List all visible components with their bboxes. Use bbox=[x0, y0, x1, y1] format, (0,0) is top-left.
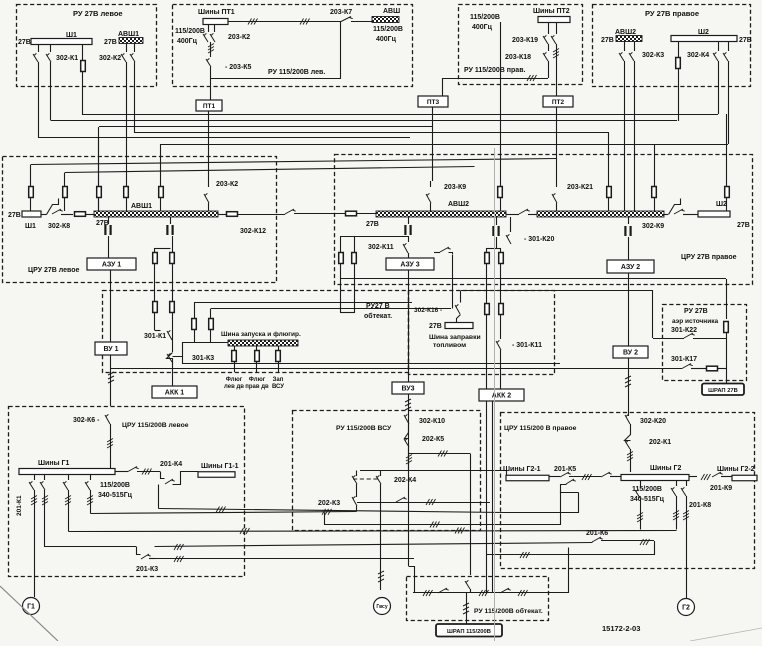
feed fuses above АВШ1 bbox=[29, 187, 34, 198]
switch 301-К17 on y=368 wire bbox=[682, 364, 693, 369]
svg-text:ЦРУ 27В правое: ЦРУ 27В правое bbox=[681, 254, 737, 261]
wire y=165 from fuse 31 bbox=[30, 165, 32, 186]
svg-text:ПТ1: ПТ1 bbox=[203, 103, 216, 110]
svg-text:Шины Г2: Шины Г2 bbox=[650, 465, 681, 472]
svg-text:27В: 27В bbox=[8, 212, 21, 219]
svg-text:203-К19: 203-К19 bbox=[512, 37, 538, 44]
switch 203-К7 bbox=[341, 17, 353, 22]
svg-text:15172-2-03: 15172-2-03 bbox=[602, 624, 640, 633]
svg-text:ВУ 1: ВУ 1 bbox=[104, 346, 119, 353]
wire row into 202-К3 bbox=[91, 512, 357, 514]
wire L2 y=120 bbox=[50, 87, 52, 121]
svg-text:- 203-К5: - 203-К5 bbox=[225, 64, 252, 71]
svg-text:АВШ1: АВШ1 bbox=[131, 203, 152, 210]
block: fairing 27V section (dashed enclosure) bbox=[103, 291, 409, 373]
Г2 feeder bbox=[686, 496, 688, 598]
device ВУ3 bbox=[392, 382, 424, 394]
svg-text:АЗУ 3: АЗУ 3 bbox=[400, 262, 419, 269]
block: ЦРУ 27В правое (dashed enclosure) bbox=[335, 155, 753, 285]
circle Гвсу generator bbox=[374, 598, 391, 615]
circle Г1 generator bbox=[23, 598, 40, 615]
contactor 202-К4 pair bbox=[352, 475, 357, 484]
svg-text:- 301-К20: - 301-К20 bbox=[524, 236, 554, 243]
svg-text:302-К1: 302-К1 bbox=[56, 55, 78, 62]
contactor 301-К3 bbox=[155, 330, 161, 332]
contactor 201-К5 bbox=[549, 476, 560, 478]
circle Г2 generator bbox=[678, 599, 695, 616]
svg-text:АЗУ 1: АЗУ 1 bbox=[102, 262, 121, 269]
svg-text:27В: 27В bbox=[601, 37, 614, 44]
ШРАП feeder bbox=[466, 593, 468, 602]
block: РУ 115/200В обтекат. (dashed enclosure) bbox=[407, 577, 549, 621]
bus Ш1 (middle) bbox=[22, 211, 41, 217]
wire L3 y=127 bbox=[99, 126, 433, 128]
svg-text:Ш2: Ш2 bbox=[698, 29, 709, 36]
wire L7 y=144 right stub bbox=[654, 144, 728, 146]
contactor 301-К1 bbox=[167, 330, 172, 340]
svg-text:302-К6 -: 302-К6 - bbox=[73, 417, 100, 424]
svg-text:ВУ3: ВУ3 bbox=[401, 386, 414, 393]
svg-text:201-К3: 201-К3 bbox=[136, 566, 158, 573]
svg-text:27В: 27В bbox=[18, 39, 31, 46]
svg-text:РУ 115/200В обтекат.: РУ 115/200В обтекат. bbox=[474, 607, 543, 615]
contactor 201-К4 bbox=[115, 471, 128, 473]
switch 301-К22 bbox=[653, 338, 684, 340]
svg-text:ЦРУ 27В левое: ЦРУ 27В левое bbox=[28, 267, 80, 274]
long run y=555 bbox=[487, 554, 654, 556]
switch 302-К20 bbox=[625, 414, 630, 424]
svg-text:топливом: топливом bbox=[433, 342, 466, 349]
fuse on left link into АВШ2 bbox=[346, 211, 357, 216]
fuse feeds from staircase wires bbox=[194, 303, 196, 318]
svg-text:203-К21: 203-К21 bbox=[567, 184, 593, 191]
svg-text:201-К8: 201-К8 bbox=[689, 502, 711, 509]
device ВУ 1 bbox=[95, 342, 127, 355]
contactor 302-К2 bbox=[126, 44, 128, 53]
svg-text:РУ 27В: РУ 27В bbox=[684, 308, 708, 315]
bus АВШ2 segment 2 (hatched) bbox=[537, 211, 664, 217]
svg-text:Шины Г1-1: Шины Г1-1 bbox=[201, 463, 239, 470]
contactor 202-К1 bbox=[625, 435, 631, 441]
svg-text:Шины ПТ2: Шины ПТ2 bbox=[533, 8, 570, 15]
svg-text:обтекат.: обтекат. bbox=[364, 312, 392, 320]
svg-text:301-К3: 301-К3 bbox=[192, 355, 214, 362]
block: РУ 115/200В ВСУ (dashed enclosure) bbox=[293, 411, 481, 531]
block: РУ 115/200В лев. (dashed enclosure) bbox=[173, 5, 413, 87]
wire АКК2 down feed bbox=[492, 401, 494, 593]
svg-text:302-К8: 302-К8 bbox=[48, 223, 70, 230]
svg-text:202-К1: 202-К1 bbox=[649, 439, 671, 446]
svg-text:203-К7: 203-К7 bbox=[330, 9, 352, 16]
fuse in aer box bbox=[724, 322, 729, 333]
switch 202-К3 on left leg bbox=[352, 496, 357, 506]
bus Ш2 (middle) bbox=[698, 211, 730, 217]
switch 203-К9 bbox=[430, 181, 432, 187]
block: РУ27 В обтекат. (dashed enclosure) bbox=[409, 291, 555, 375]
svg-text:301-К17: 301-К17 bbox=[671, 356, 697, 363]
svg-text:301-К1: 301-К1 bbox=[144, 333, 166, 340]
switch 201-К6 bbox=[592, 537, 603, 542]
svg-text:РУ 115/200В прав.: РУ 115/200В прав. bbox=[464, 67, 525, 74]
svg-text:302-К16 -: 302-К16 - bbox=[414, 307, 442, 314]
svg-text:203-К2: 203-К2 bbox=[228, 34, 250, 41]
device АЗУ 3 bbox=[386, 258, 434, 270]
block: РУ 27В аэр источника (dashed) bbox=[663, 305, 747, 381]
svg-text:Зап: Зап bbox=[273, 377, 284, 383]
svg-text:400Гц: 400Гц bbox=[376, 36, 397, 43]
contactor 302-К1 bbox=[38, 45, 40, 53]
svg-text:лев дв: лев дв bbox=[224, 384, 244, 390]
fuse before ШРАП 27В bbox=[707, 366, 718, 371]
contactor 202-К5 bbox=[405, 433, 409, 439]
switch 203-К2 (middle band) bbox=[208, 181, 210, 187]
svg-text:202-К3: 202-К3 bbox=[318, 500, 340, 507]
fuse on Ш2 drop bbox=[678, 42, 680, 59]
long run y=547 with 201-К6 bbox=[155, 543, 593, 547]
device АКК 1 bbox=[152, 386, 197, 398]
fuse feeds АВШ2 seg2 bbox=[607, 187, 612, 198]
link switch between АВШ2 segments bbox=[506, 214, 519, 216]
bus Шины Г2-2 bbox=[732, 475, 757, 481]
svg-text:РУ 27В левое: РУ 27В левое bbox=[73, 9, 123, 18]
box ПТ3 bbox=[418, 96, 448, 107]
wire: 203-К7 return to ПТ1 drop bbox=[340, 22, 342, 79]
bus АВШ (115/200В 400Гц) bbox=[372, 17, 399, 23]
svg-text:Шина заправки: Шина заправки bbox=[429, 334, 481, 341]
contactor 201-К8 bbox=[676, 481, 678, 486]
box ШРАП 27В bbox=[702, 384, 744, 396]
svg-text:302-К11: 302-К11 bbox=[368, 244, 394, 251]
fairing AC wire bbox=[413, 592, 569, 594]
svg-text:302-К10: 302-К10 bbox=[419, 418, 445, 425]
block: ЦРУ 115/200 В правое (dashed enclosure) bbox=[501, 413, 755, 569]
bus АВШ2 segment 1 (hatched) bbox=[376, 211, 506, 217]
svg-text:400Гц: 400Гц bbox=[472, 24, 493, 31]
block: ЦРУ 27В левое (dashed enclosure) bbox=[3, 157, 277, 283]
svg-text:203-К18: 203-К18 bbox=[505, 54, 531, 61]
fuse on Ш1 right drop bbox=[82, 45, 84, 62]
drop from box I bbox=[465, 580, 470, 589]
svg-text:Шина запуска и флюгир.: Шина запуска и флюгир. bbox=[221, 331, 301, 338]
switch 302-К10 bbox=[404, 414, 409, 424]
device ВУ 2 bbox=[613, 346, 648, 358]
bus Шины ПТ2 bbox=[538, 17, 570, 23]
switch 201-К3 on lower wires bbox=[45, 546, 136, 548]
wire ПТ2 drop with marks bbox=[556, 44, 558, 96]
block: РУ 27В левое (dashed enclosure) bbox=[17, 5, 157, 87]
wires to 27В fairing bus (341/354 drop) bbox=[341, 236, 408, 238]
svg-text:115/200В: 115/200В bbox=[470, 14, 500, 21]
svg-text:302-К9: 302-К9 bbox=[642, 223, 664, 230]
contactor 203-К5 bbox=[210, 42, 212, 57]
svg-text:Флюг: Флюг bbox=[226, 377, 243, 383]
svg-text:ЦРУ 115/200В левое: ЦРУ 115/200В левое bbox=[122, 422, 189, 429]
svg-text:ЦРУ 115/200 В правое: ЦРУ 115/200 В правое bbox=[504, 425, 577, 432]
fuse feed АВШ2 seg1 bbox=[498, 187, 503, 198]
svg-text:203-К9: 203-К9 bbox=[444, 184, 466, 191]
svg-text:РУ 115/200В ВСУ: РУ 115/200В ВСУ bbox=[336, 425, 392, 432]
switch 201-К9 to Г2-2 bbox=[689, 476, 697, 478]
wire Г1 feeder bbox=[34, 490, 36, 597]
fuse pair below АВШ2 seg1 right bbox=[486, 248, 488, 252]
svg-text:115/200В: 115/200В bbox=[100, 482, 130, 489]
svg-text:302-К4: 302-К4 bbox=[687, 52, 709, 59]
block: РУ 27В правое (dashed enclosure) bbox=[593, 5, 751, 87]
svg-text:ШРАП 27В: ШРАП 27В bbox=[708, 388, 738, 394]
bus Ш1 (top left) bbox=[31, 39, 92, 45]
svg-text:АВШ: АВШ bbox=[383, 8, 400, 15]
svg-text:201-К6: 201-К6 bbox=[586, 530, 608, 537]
wire y=173 from fuse 65 bbox=[64, 173, 66, 186]
wire 202-К4 left leg down bbox=[356, 484, 358, 497]
wire 115/200В 400Гц vertical bbox=[500, 22, 502, 186]
svg-text:27В: 27В bbox=[739, 37, 752, 44]
contactor 203-К19 bbox=[548, 23, 550, 35]
bus Шины ПТ1 bbox=[203, 19, 228, 25]
svg-text:РУ 27В правое: РУ 27В правое bbox=[645, 9, 699, 18]
svg-text:202-К4: 202-К4 bbox=[394, 477, 416, 484]
bus АВШ1 (middle, hatched) bbox=[94, 211, 218, 217]
svg-text:201-К9: 201-К9 bbox=[710, 485, 732, 492]
fuse pair 302-К16 feeds bbox=[485, 304, 490, 315]
wire 201-К4 loop bbox=[161, 472, 165, 479]
svg-text:аэр источника: аэр источника bbox=[672, 318, 718, 325]
wire L4 y=133 bbox=[134, 87, 136, 133]
device АЗУ 2 bbox=[607, 260, 654, 273]
svg-text:Ш1: Ш1 bbox=[25, 223, 36, 230]
svg-text:АКК 1: АКК 1 bbox=[165, 390, 185, 397]
svg-text:Флюг: Флюг bbox=[249, 377, 266, 383]
svg-text:Шины ПТ1: Шины ПТ1 bbox=[198, 9, 235, 16]
svg-text:202-К5: 202-К5 bbox=[422, 436, 444, 443]
plug to АЗУ 1 bbox=[108, 217, 110, 224]
svg-text:400Гц: 400Гц bbox=[177, 38, 198, 45]
long wire y=363 bbox=[182, 363, 560, 365]
device АКК 2 bbox=[479, 389, 524, 401]
svg-text:27В: 27В bbox=[366, 221, 379, 228]
svg-text:115/200В: 115/200В bbox=[175, 28, 205, 35]
vertical x=569 from upper runs bbox=[568, 548, 570, 594]
bus АВШ2 (top) bbox=[616, 36, 642, 42]
plug and 301-К20 drop at segment junction bbox=[496, 217, 498, 225]
svg-text:ПТ2: ПТ2 bbox=[552, 99, 565, 106]
vertical x=487 long drop bbox=[486, 592, 488, 593]
svg-text:- 301-К11: - 301-К11 bbox=[512, 342, 542, 349]
svg-text:РУ 115/200В лев.: РУ 115/200В лев. bbox=[268, 69, 325, 76]
switch 302-К12 and link wire to АВШ2 bbox=[218, 214, 226, 216]
svg-text:ВУ 2: ВУ 2 bbox=[623, 350, 638, 357]
long run y=559 into fairing box bbox=[155, 558, 414, 560]
svg-text:302-К20: 302-К20 bbox=[640, 418, 666, 425]
wire right leg down / Гвсу feeder bbox=[380, 484, 382, 590]
wire 301-К3 to start bus bbox=[173, 343, 229, 357]
svg-text:302-К3: 302-К3 bbox=[642, 52, 664, 59]
svg-text:Гвсу: Гвсу bbox=[376, 604, 387, 610]
svg-text:201-К5: 201-К5 bbox=[554, 466, 576, 473]
svg-text:27В: 27В bbox=[104, 39, 117, 46]
contactor 203-К18 bbox=[548, 44, 550, 51]
switch from АЗУ 3 right bbox=[434, 252, 440, 254]
svg-text:Шины Г2-1: Шины Г2-1 bbox=[503, 466, 541, 473]
bus Шины Г1-1 bbox=[198, 472, 235, 478]
wire 302-К2 left leg down to fuse bbox=[126, 87, 128, 186]
svg-text:прав дв: прав дв bbox=[245, 384, 269, 390]
bus Шины Г2 bbox=[621, 475, 689, 481]
switch 301-К11 bbox=[496, 340, 501, 350]
svg-text:27В: 27В bbox=[429, 323, 442, 330]
svg-text:Шины Г2-2: Шины Г2-2 bbox=[717, 466, 755, 473]
plug and fuse pair below АВШ1 bbox=[170, 217, 172, 224]
bus Шины Г2-1 bbox=[506, 475, 549, 481]
wire: РУ прав internal horizontal bbox=[442, 78, 548, 80]
svg-text:201-К1: 201-К1 bbox=[16, 495, 23, 516]
svg-text:302-К12: 302-К12 bbox=[240, 228, 266, 235]
wire 202-К5 right then down bbox=[408, 447, 410, 471]
device АЗУ 1 bbox=[87, 258, 136, 270]
switch 203-К21 bbox=[556, 181, 558, 187]
svg-text:АВШ2: АВШ2 bbox=[615, 29, 636, 36]
svg-text:ШРАП 115/200В: ШРАП 115/200В bbox=[447, 629, 491, 635]
box ПТ1 bbox=[196, 100, 222, 111]
svg-text:Г1: Г1 bbox=[27, 604, 35, 611]
svg-text:27В: 27В bbox=[96, 220, 109, 227]
box ПТ2 bbox=[543, 96, 573, 107]
svg-text:301-К22: 301-К22 bbox=[671, 327, 697, 334]
start bus output fuses bbox=[234, 346, 236, 351]
svg-text:340-515Гц: 340-515Гц bbox=[630, 496, 665, 503]
svg-text:ВСУ: ВСУ bbox=[272, 384, 284, 390]
long wire y=368 with 301-К17 at right bbox=[111, 368, 682, 370]
fuse on Ш1-АВШ1 link bbox=[75, 212, 86, 217]
svg-text:Ш2: Ш2 bbox=[716, 201, 727, 208]
block: ЦРУ 115/200В левое (dashed enclosure) bbox=[9, 407, 245, 577]
contactor 302-К8 bbox=[41, 214, 47, 216]
scan artifact vertical fold bbox=[494, 148, 496, 641]
plug to АЗУ 2 bbox=[628, 217, 630, 224]
scan artifact diagonal bbox=[0, 586, 58, 641]
svg-text:Шины Г1: Шины Г1 bbox=[38, 460, 69, 467]
contactor 302-К4 bbox=[718, 42, 720, 52]
svg-text:302-К2: 302-К2 bbox=[99, 55, 121, 62]
tap 676 down bbox=[676, 496, 678, 530]
svg-text:ПТ3: ПТ3 bbox=[427, 99, 440, 106]
svg-text:Ш1: Ш1 bbox=[66, 32, 77, 39]
long run y=524 branch bbox=[325, 491, 561, 525]
wire y=279 to aer source bbox=[340, 278, 726, 280]
fuse pair into 301-К1 bbox=[153, 302, 158, 313]
bus Шины Г1 bbox=[19, 469, 115, 475]
svg-text:АВШ2: АВШ2 bbox=[448, 201, 469, 208]
svg-text:203-К2: 203-К2 bbox=[216, 181, 238, 188]
svg-text:АВШ1: АВШ1 bbox=[118, 31, 139, 38]
contactor 203-К2 (top) bbox=[208, 25, 210, 33]
svg-text:Г2: Г2 bbox=[682, 605, 690, 612]
wire row y=502 from 202-К4 leg bbox=[357, 502, 490, 504]
long run y=531 bbox=[69, 531, 677, 532]
302-К11 switch to АЗУ 3 bbox=[408, 217, 410, 224]
box ШРАП 115/200В bbox=[436, 624, 502, 637]
wire L6 y=144 bbox=[161, 144, 654, 146]
wire from 302-К4 area to АВШ2 fuse bbox=[726, 114, 728, 186]
block: РУ 115/200В прав. (dashed enclosure) bbox=[459, 5, 583, 85]
svg-text:115/200В: 115/200В bbox=[373, 26, 403, 33]
svg-text:340-515Гц: 340-515Гц bbox=[98, 492, 133, 499]
svg-text:АЗУ 2: АЗУ 2 bbox=[621, 264, 640, 271]
wire: ПТ1 bus to 203-К7 bbox=[228, 21, 341, 23]
contactor 302-К9 bbox=[664, 214, 668, 216]
wire L5 y=137 bbox=[38, 87, 40, 138]
wire L1 y=114 bbox=[83, 114, 718, 116]
bus АВШ1 (top) bbox=[119, 38, 143, 44]
wire y=290 to 301-К22 bbox=[461, 290, 653, 292]
svg-text:201-К4: 201-К4 bbox=[160, 461, 182, 468]
switch 302-К6 bbox=[105, 414, 110, 424]
long run y=509 bbox=[159, 493, 579, 513]
bus Ш2 (top) bbox=[671, 36, 737, 42]
tap wires to long runs bbox=[44, 490, 46, 547]
switch 302-К16 bbox=[460, 291, 462, 303]
wire 202-К5 to 202-К4 and Г2-1 bbox=[360, 470, 506, 472]
contactor 302-К3 bbox=[624, 42, 626, 52]
tap from Г2 bus down (628) bbox=[640, 481, 642, 488]
svg-text:27В: 27В bbox=[737, 222, 750, 229]
